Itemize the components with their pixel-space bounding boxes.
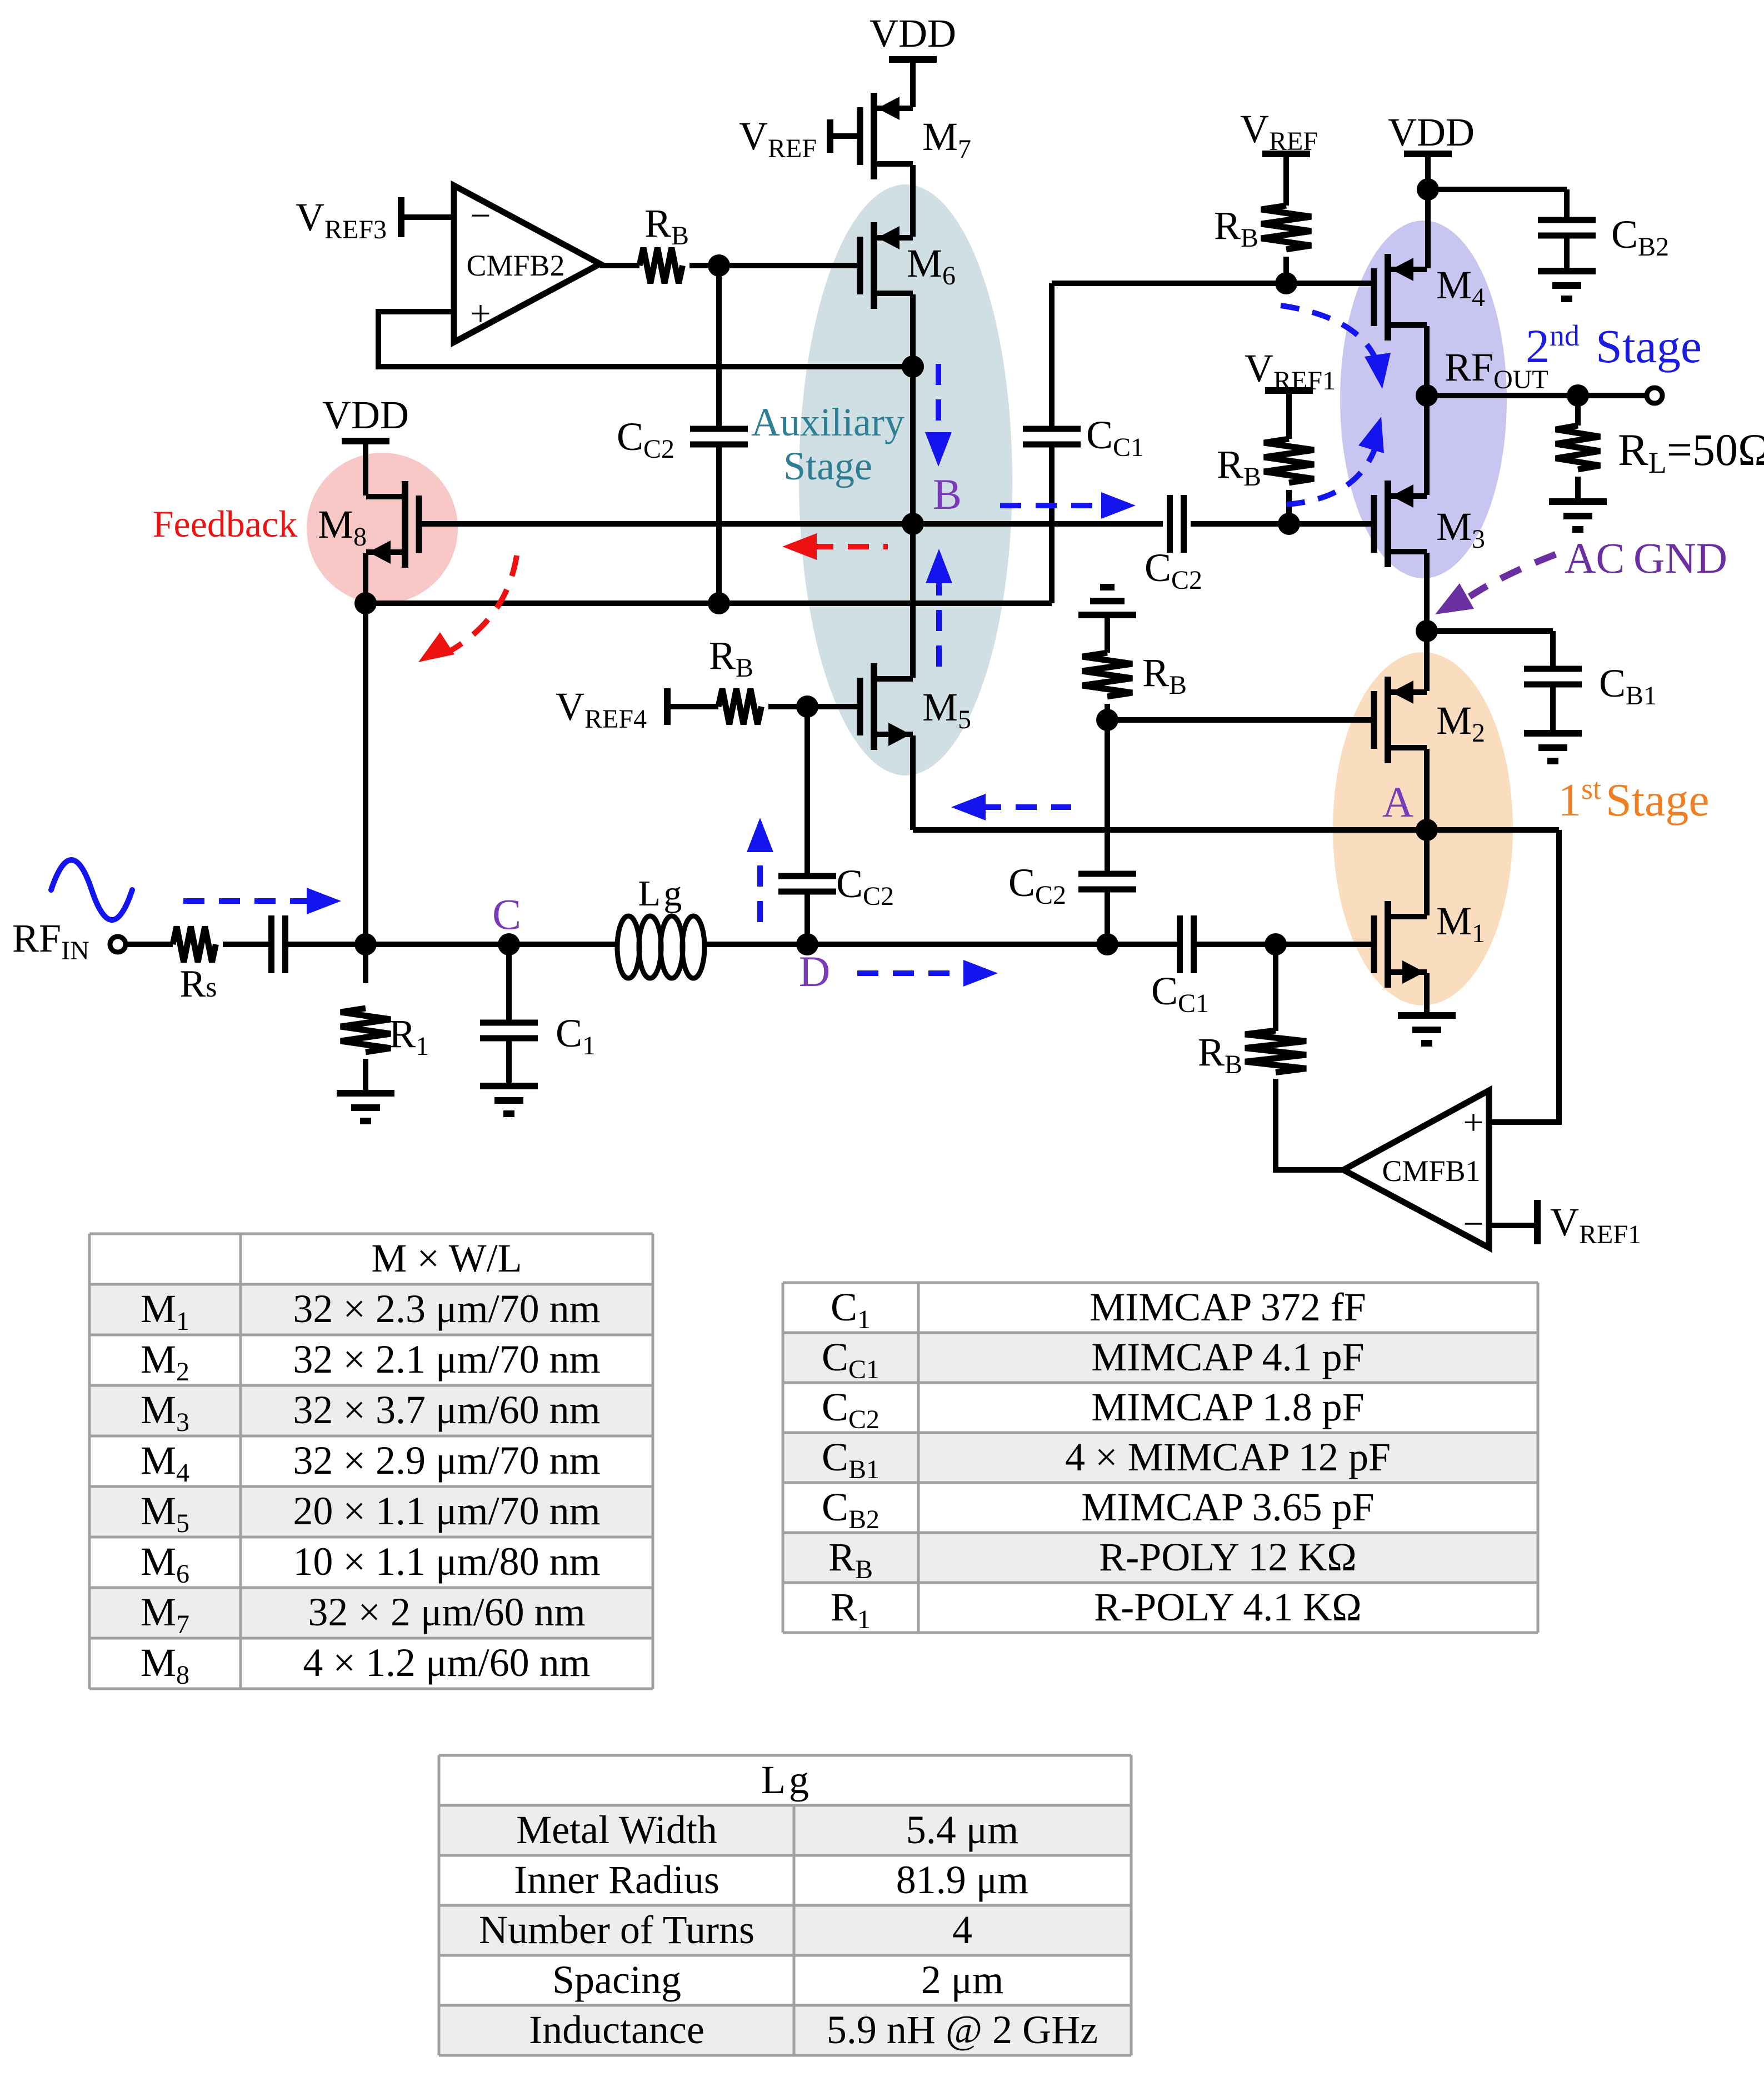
table: Lg inductor parameters xyxy=(439,1755,1131,2055)
M2 gate wire xyxy=(1107,717,1374,723)
svg-text:VDD: VDD xyxy=(869,11,956,56)
wire RL to ground xyxy=(1575,477,1581,502)
VREF4 terminal bar xyxy=(664,688,671,725)
wire CB2 to ground xyxy=(1564,236,1570,271)
wire VREF to M7 gate xyxy=(830,133,860,139)
junction M3 source / CB1 xyxy=(1416,620,1438,642)
svg-text:81.9 μm: 81.9 μm xyxy=(896,1858,1029,1902)
wire VREF3 to CMFB2 - xyxy=(401,214,454,220)
wire M3 source to M2 drain xyxy=(1424,631,1430,691)
svg-text:20 × 1.1 μm/70 nm: 20 × 1.1 μm/70 nm xyxy=(293,1489,600,1533)
wire RB to M6 gate node xyxy=(689,263,719,268)
junction RF OUT xyxy=(1416,384,1438,407)
wire M3 source down xyxy=(1424,553,1430,631)
op-amp CMFB1 xyxy=(1343,1090,1489,1248)
svg-text:L g: L g xyxy=(761,1758,809,1802)
feedback line (node to CC1) xyxy=(366,600,1052,606)
1st stage highlight ellipse xyxy=(1333,652,1513,1005)
svg-text:32 × 2.3 μm/70 nm: 32 × 2.3 μm/70 nm xyxy=(293,1287,600,1331)
junction node C xyxy=(498,933,520,955)
capacitor CC1 (input series) xyxy=(1177,915,1183,973)
wire CMFB2 + input loop xyxy=(378,312,913,367)
junction RF input node xyxy=(354,933,377,955)
blue curved arrow (M3 to RFout) xyxy=(1286,442,1377,504)
capacitor CB2 xyxy=(1538,217,1596,223)
svg-text:M × W/L: M × W/L xyxy=(371,1236,522,1280)
wire VREF to RB xyxy=(1283,154,1289,206)
junction CC2 / node D line xyxy=(1096,933,1118,955)
svg-text:L g: L g xyxy=(638,873,682,914)
ground (R1) xyxy=(337,1090,394,1097)
resistor RB (VREF1 bias) xyxy=(1264,439,1314,483)
auxiliary stage highlight ellipse xyxy=(799,184,1012,775)
wire VDD to M4 drain xyxy=(1425,154,1431,268)
wire M5 gate node down to CC2 xyxy=(804,707,810,876)
junction VDD / CB2 xyxy=(1417,178,1439,201)
wire RFout to M3 drain xyxy=(1424,396,1430,495)
junction VREF1 bias / M3 gate xyxy=(1278,513,1300,535)
junction M8 source / feedback line xyxy=(354,592,377,614)
capacitor C1 xyxy=(480,1020,538,1026)
purple AC GND arrow xyxy=(1470,554,1556,597)
wire RFin to Rs xyxy=(126,942,173,947)
capacitor CB1 xyxy=(1524,666,1582,672)
red feedback arrow (node B left) xyxy=(812,544,888,549)
ground (CB2) xyxy=(1538,268,1596,274)
input sine symbol xyxy=(51,860,132,920)
svg-text:4 × MIMCAP 12 pF: 4 × MIMCAP 12 pF xyxy=(1065,1435,1391,1479)
svg-text:B: B xyxy=(933,470,962,518)
wire CB1 down xyxy=(1550,631,1556,668)
svg-text:MIMCAP 4.1 pF: MIMCAP 4.1 pF xyxy=(1091,1335,1364,1379)
svg-text:32 × 2.9 μm/70 nm: 32 × 2.9 μm/70 nm xyxy=(293,1438,600,1483)
wire CMFB1 - to VREF1 xyxy=(1489,1223,1537,1228)
wire ground to RB xyxy=(1105,615,1110,653)
svg-text:5.4 μm: 5.4 μm xyxy=(906,1808,1019,1852)
svg-text:10 × 1.1 μm/80 nm: 10 × 1.1 μm/80 nm xyxy=(293,1539,600,1584)
wire C1 to ground xyxy=(506,1038,512,1086)
wire Lg to node D xyxy=(704,942,807,947)
svg-text:−: − xyxy=(470,196,491,236)
signal flow arrow (input) xyxy=(183,898,307,904)
RF IN terminal xyxy=(110,937,126,952)
wire RB to node B line xyxy=(1286,490,1292,524)
svg-text:MIMCAP 1.8 pF: MIMCAP 1.8 pF xyxy=(1091,1385,1364,1429)
resistor RB (VREF bias) xyxy=(1261,206,1311,249)
svg-text:+: + xyxy=(470,293,491,334)
wire node C to Lg xyxy=(509,942,618,947)
svg-text:MIMCAP 3.65 pF: MIMCAP 3.65 pF xyxy=(1081,1485,1374,1529)
VDD supply bar (top) xyxy=(889,56,937,63)
wire junction to node B xyxy=(910,367,916,524)
signal flow arrow (up at D) xyxy=(757,849,763,922)
transistor M5 xyxy=(857,678,863,735)
svg-text:A: A xyxy=(1382,778,1413,826)
wire node C to C1 xyxy=(506,944,512,1023)
signal flow arrow (node D right) xyxy=(857,970,962,976)
wire CB2 down xyxy=(1564,189,1570,219)
svg-text:4: 4 xyxy=(952,1908,972,1952)
wire input node to R1 xyxy=(363,944,368,983)
2nd stage highlight ellipse xyxy=(1340,221,1507,578)
wire node to M6 gate xyxy=(719,263,860,268)
wire M8 node down to RF input node xyxy=(363,603,368,944)
wire node A to CMFB1 + xyxy=(1489,830,1559,1122)
wire CC2 to node D line xyxy=(1105,889,1110,944)
table: transistor dimensions xyxy=(89,1234,653,1689)
ground (C1) xyxy=(480,1083,538,1089)
VREF1 terminal bar (CMFB1) xyxy=(1534,1200,1541,1244)
node A line xyxy=(913,827,1559,833)
wire CC1 up to M4 gate line xyxy=(1049,283,1055,429)
wire CC2 to M3 gate xyxy=(1191,521,1374,527)
svg-text:CMFB1: CMFB1 xyxy=(1382,1154,1480,1188)
op-amp CMFB2 xyxy=(454,186,600,342)
junction node D xyxy=(796,933,818,955)
wire RB to M2 gate node xyxy=(1105,704,1110,720)
svg-text:4 × 1.2 μm/60 nm: 4 × 1.2 μm/60 nm xyxy=(303,1640,590,1685)
wire to CB2 xyxy=(1428,187,1567,192)
wire VREF1 to RB xyxy=(1286,391,1292,439)
wire VDD to M7 drain xyxy=(910,59,916,107)
svg-text:32 × 3.7 μm/60 nm: 32 × 3.7 μm/60 nm xyxy=(293,1388,600,1432)
wire M7 source to M6 drain xyxy=(910,165,916,237)
signal flow arrow (mid left) xyxy=(980,804,1071,810)
junction RL xyxy=(1567,384,1589,407)
junction M2 gate node xyxy=(1096,709,1118,731)
junction M5 gate node xyxy=(796,695,818,718)
junction node B xyxy=(902,513,924,535)
svg-text:Metal Width: Metal Width xyxy=(516,1808,717,1852)
svg-text:Spacing: Spacing xyxy=(552,1958,681,2002)
wire CC2 to node D xyxy=(804,892,810,944)
VDD supply bar (2nd stage) xyxy=(1404,151,1452,157)
svg-text:RL=50Ω: RL=50Ω xyxy=(1618,424,1764,479)
RF OUT terminal xyxy=(1647,388,1662,403)
junction M1 gate node xyxy=(1265,933,1287,955)
junction M6 source / CMFB2 + sense xyxy=(902,356,924,378)
signal flow arrow (down into B) xyxy=(936,364,941,438)
node B wire (M8 gate to CC2) xyxy=(419,521,1163,527)
svg-text:32 × 2 μm/60 nm: 32 × 2 μm/60 nm xyxy=(308,1590,585,1634)
svg-text:AC GND: AC GND xyxy=(1565,534,1727,582)
junction node A xyxy=(1416,819,1438,841)
ground (flipped, M2 bias) xyxy=(1100,584,1115,590)
svg-text:Auxiliary: Auxiliary xyxy=(751,400,905,444)
svg-text:VDD: VDD xyxy=(1388,110,1475,154)
svg-text:Inner Radius: Inner Radius xyxy=(514,1858,719,1902)
red feedback curved arrow xyxy=(450,555,517,651)
ground (RL) xyxy=(1549,498,1607,505)
svg-text:Number of Turns: Number of Turns xyxy=(479,1908,754,1952)
wire cap to input node xyxy=(286,942,366,947)
wire VDD to M8 drain xyxy=(363,441,368,496)
ground (CB1) xyxy=(1524,730,1582,737)
resistor Rs xyxy=(173,927,216,962)
resistor RB (M2 bias) xyxy=(1082,653,1132,697)
wire CC1 down segment xyxy=(1049,444,1055,603)
capacitor CC2 (M2 gate coupling) xyxy=(1078,871,1136,877)
resistor RB (CMFB2 output) xyxy=(639,248,682,283)
svg-text:R-POLY 4.1 KΩ: R-POLY 4.1 KΩ xyxy=(1094,1585,1362,1629)
svg-text:C: C xyxy=(492,890,521,938)
wire RB to CMFB1 output xyxy=(1276,1079,1343,1170)
wire M4 source to RFout xyxy=(1424,326,1430,396)
svg-text:Stage: Stage xyxy=(1606,774,1710,826)
svg-text:Stage: Stage xyxy=(783,444,872,488)
svg-text:5.9 nH @ 2 GHz: 5.9 nH @ 2 GHz xyxy=(827,2008,1098,2052)
VREF terminal bar (M7 gate) xyxy=(827,119,833,153)
junction M6 gate node xyxy=(708,254,730,277)
RF OUT wire xyxy=(1427,393,1648,398)
transistor M6 xyxy=(857,237,863,294)
svg-text:Inductance: Inductance xyxy=(529,2008,704,2052)
wire RB to M5 gate node xyxy=(768,704,807,709)
svg-text:+: + xyxy=(1463,1102,1483,1143)
capacitor CC1 (feedback) xyxy=(1023,426,1081,432)
wire M2 gate node down to CC2 xyxy=(1105,720,1110,874)
svg-text:VDD: VDD xyxy=(322,393,409,437)
blue curved arrow (M4 to RFout) xyxy=(1281,306,1379,368)
transistor M8 xyxy=(416,496,422,553)
node D line to CC1 xyxy=(807,942,1180,947)
wire node A to M1 drain xyxy=(1424,830,1430,915)
svg-text:2 μm: 2 μm xyxy=(921,1958,1004,2002)
wire M6 source to node junction xyxy=(910,294,916,367)
VREF supply bar xyxy=(1262,151,1310,157)
wire RL top xyxy=(1575,396,1581,426)
wire node B to M5 drain xyxy=(910,524,916,678)
svg-text:MIMCAP 372 fF: MIMCAP 372 fF xyxy=(1090,1285,1366,1329)
wire CC2 to feedback line xyxy=(716,444,722,603)
wire CMFB2 output xyxy=(600,263,639,268)
feedback highlight circle xyxy=(307,453,458,604)
resistor RL xyxy=(1556,426,1600,469)
wire VREF4 to RB xyxy=(667,704,718,709)
junction CC2 / feedback line xyxy=(708,592,730,614)
transistor M2 xyxy=(1371,691,1377,749)
resistor RB (VREF4) xyxy=(718,689,761,724)
resistor RB (CMFB1 out) xyxy=(1245,1030,1306,1073)
wire CB1 to ground xyxy=(1550,685,1556,733)
inductor Lg xyxy=(617,916,639,978)
resistor R1 xyxy=(341,1008,391,1052)
wire M5 source down xyxy=(910,735,916,830)
wire input node to node C xyxy=(366,942,509,947)
svg-text:CMFB2: CMFB2 xyxy=(466,249,564,282)
VREF1 supply bar xyxy=(1265,387,1313,394)
transistor M3 xyxy=(1371,495,1377,553)
wire M1 gate node to RB xyxy=(1273,944,1278,1031)
wire CC1 to M1 gate node xyxy=(1193,942,1276,947)
signal flow arrow (up into B) xyxy=(936,578,942,667)
wire to M1 gate xyxy=(1276,942,1374,947)
VREF3 terminal bar xyxy=(398,197,404,237)
wire M6-gate node down to CC2 xyxy=(716,266,722,429)
svg-text:D: D xyxy=(799,947,830,995)
svg-text:R-POLY 12 KΩ: R-POLY 12 KΩ xyxy=(1099,1535,1357,1579)
svg-text:Feedback: Feedback xyxy=(153,503,298,545)
wire RB to M4 gate line xyxy=(1283,257,1289,283)
svg-text:Stage: Stage xyxy=(1596,319,1702,373)
transistor M1 xyxy=(1371,915,1377,973)
ground (M1) xyxy=(1398,1012,1456,1019)
svg-text:−: − xyxy=(1463,1204,1483,1244)
svg-text:32 × 2.1 μm/70 nm: 32 × 2.1 μm/70 nm xyxy=(293,1337,600,1382)
signal flow arrow (node B right) xyxy=(1000,503,1101,508)
junction VREF bias / M4 gate xyxy=(1275,272,1297,294)
VDD supply bar (M8) xyxy=(342,438,389,444)
wire Rs to input cap xyxy=(223,942,272,947)
transistor M4 xyxy=(1371,268,1377,326)
wire M8 source down xyxy=(363,553,368,603)
wire node to M5 gate xyxy=(807,704,860,709)
capacitor CC2 (upper) xyxy=(690,426,748,432)
wire R1 to ground xyxy=(363,1059,368,1093)
wire M2 source to node A xyxy=(1424,749,1430,830)
wire M1 source to ground xyxy=(1424,973,1430,1015)
table: capacitor and resistor values xyxy=(783,1283,1538,1633)
wire to CB1 xyxy=(1427,628,1553,634)
capacitor input coupling xyxy=(268,915,274,973)
capacitor CC2 (input coupling) xyxy=(778,873,836,879)
M4 gate line xyxy=(1052,281,1374,286)
transistor M7 xyxy=(857,107,863,165)
capacitor CC2 (node B series) xyxy=(1167,495,1173,553)
